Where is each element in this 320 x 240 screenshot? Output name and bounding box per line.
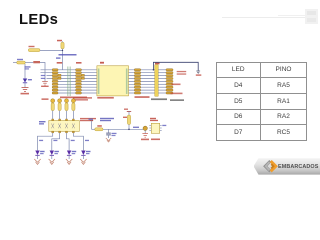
main reset wire	[103, 128, 143, 130]
LED block label (red, right)	[80, 118, 96, 121]
U2 net label right	[162, 125, 166, 126]
resistor bank label (red, left)	[42, 98, 49, 100]
ground G2	[42, 81, 48, 85]
ground under SW1	[142, 134, 148, 138]
connector J3 pads	[134, 69, 140, 94]
blue net label (VDD to reset)	[59, 54, 77, 56]
wire block pin 2 to LED D5	[52, 133, 60, 151]
J5 red labels right	[171, 71, 187, 94]
ground under LED D4	[34, 159, 40, 164]
Embarcados logo ribbon	[254, 158, 320, 174]
title	[19, 13, 58, 28]
wires strip to J5	[158, 70, 166, 93]
junction node	[62, 50, 63, 51]
diode D1 net label	[25, 66, 31, 69]
resistor R3 (horizontal)	[13, 61, 25, 64]
wire R1 bottom to header row	[62, 49, 64, 70]
push button SW1	[143, 126, 147, 133]
resistor R2 label	[29, 46, 35, 47]
ground under C5	[106, 138, 111, 142]
caption under strip	[151, 98, 167, 100]
net label wire D5	[53, 140, 57, 141]
wire block pin 1 to LED D4	[38, 133, 53, 151]
resistor R7 (vertical)	[71, 99, 75, 120]
net label wire D6	[71, 140, 75, 141]
wire block pin 4 to LED D7	[73, 133, 83, 151]
resistor R10 (vertical pullup)	[123, 115, 131, 130]
ground G1	[22, 88, 29, 92]
wire LED D6 to ground	[68, 155, 70, 159]
IC U1 body	[97, 66, 129, 96]
resistor R6 (vertical)	[65, 99, 69, 120]
power VDD left	[89, 119, 94, 130]
U2 caption	[151, 139, 160, 141]
resistor R9 (horizontal)	[92, 128, 104, 131]
wire LED D5 to ground	[51, 155, 53, 159]
connector J2 pads	[76, 69, 85, 94]
resistor bank caption (red, right)	[73, 97, 92, 100]
IC U1 pin name columns (green)	[98, 69, 128, 95]
wires rows colA-colB-IC	[41, 70, 97, 93]
green bus lines	[67, 67, 70, 97]
LED block label (blue, left)	[39, 121, 46, 125]
resistor R4 (vertical)	[51, 99, 55, 120]
resistor R3 label	[17, 59, 23, 60]
net label wire D7	[85, 140, 89, 141]
component U2 body	[149, 123, 161, 133]
blue net label small	[56, 57, 61, 58]
diode D1 (blue)	[23, 79, 32, 83]
ground under LED D5	[49, 159, 55, 164]
header J4 label	[155, 63, 160, 65]
wire to diode D1	[24, 64, 26, 79]
left pin stub labels (blue)	[41, 75, 46, 79]
resistor R1 (vertical, top)	[61, 41, 64, 49]
net label wire D4	[39, 140, 43, 141]
ground under LED D6	[66, 159, 72, 164]
wire LED D7 to ground	[82, 155, 84, 159]
SW1 caption	[141, 139, 149, 141]
VSS symbol	[196, 71, 200, 74]
faint watermark glyph top right corner	[305, 9, 318, 24]
schematic SVG placeholder	[0, 0, 320, 180]
red component C7	[25, 61, 40, 63]
header J1 label	[57, 62, 63, 64]
ground G2 caption	[41, 86, 49, 87]
ground under LED D7	[80, 159, 86, 164]
connector J1 pads	[52, 69, 61, 94]
wire D1 to ground G1	[24, 83, 26, 87]
op IC U1 label	[100, 62, 104, 64]
faint watermark line top right	[222, 17, 308, 18]
LED D6	[67, 151, 76, 156]
power VDD above R10	[124, 109, 131, 116]
connector J5 pads	[166, 69, 173, 94]
wire block pin 3 to LED D6	[67, 133, 70, 151]
resistor R2 (horizontal)	[28, 49, 40, 52]
net label reset (blue 2 lines)	[100, 118, 114, 121]
resistor R5 (vertical)	[58, 99, 62, 120]
VSS caption	[196, 74, 202, 75]
table of LED pins	[216, 62, 308, 141]
wire to ground G2	[40, 63, 45, 82]
LED D4	[35, 151, 44, 156]
caption under headers	[60, 97, 87, 99]
caption under J5	[170, 99, 184, 101]
LED D5	[50, 151, 59, 156]
IC U1 caption	[97, 97, 114, 99]
ground G1 caption	[21, 93, 30, 95]
header J2 label	[76, 62, 82, 64]
net label on wire	[133, 127, 139, 128]
IC right pin wires to J3	[129, 70, 155, 93]
capacitor C5	[106, 129, 116, 138]
SIL strip J4	[155, 65, 158, 96]
resistor R9 label	[97, 125, 102, 127]
wire LED D4 to ground	[37, 155, 39, 159]
LED D7	[81, 151, 90, 156]
caption under J3	[135, 96, 150, 98]
logo diamond gray part	[263, 160, 271, 172]
LED block body	[49, 119, 80, 133]
wire R2 to node	[40, 49, 63, 51]
component U2 label	[150, 118, 158, 121]
long top wire to VSS	[153, 62, 198, 71]
logo diamond orange part	[269, 160, 277, 172]
power label VDD (top)	[57, 40, 62, 42]
